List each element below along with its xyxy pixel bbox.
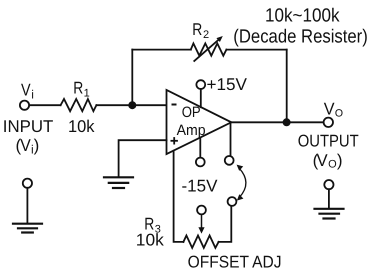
- wire input to R1: [29, 104, 60, 106]
- output terminal Vo: [324, 118, 333, 127]
- wire R2 to output node: [226, 49, 286, 51]
- arrow of variable resistor R2: [194, 36, 223, 62]
- wire junction up to feedback: [131, 50, 133, 106]
- svg-text:Amp: Amp: [177, 122, 206, 139]
- curved swap arrow: [239, 168, 246, 197]
- svg-text:): ): [34, 136, 40, 155]
- wire output pin down: [230, 122, 232, 156]
- svg-text:INPUT: INPUT: [3, 117, 54, 136]
- node B (output junction): [283, 118, 291, 126]
- wire output: [231, 121, 323, 123]
- svg-text:(Decade Resister): (Decade Resister): [233, 26, 367, 47]
- wire to ground: [328, 189, 330, 208]
- ground (non-inverting input): [104, 176, 133, 178]
- svg-text:O: O: [328, 158, 337, 170]
- svg-text:1: 1: [84, 88, 90, 100]
- svg-text:V: V: [20, 136, 31, 155]
- svg-text:10k: 10k: [136, 230, 164, 249]
- svg-text:10k~100k: 10k~100k: [265, 6, 340, 27]
- wire feedback down to output node: [286, 50, 288, 123]
- svg-text:R: R: [192, 20, 202, 39]
- wire R1 to inverting input: [96, 104, 166, 106]
- input terminal Vi: [20, 101, 29, 110]
- op-amp plus sign: [171, 137, 178, 144]
- wire op-amp to R3 left: [174, 151, 184, 242]
- svg-text:OUTPUT: OUTPUT: [298, 132, 359, 151]
- svg-text:OP: OP: [182, 104, 201, 121]
- wire feedback top left: [132, 49, 191, 51]
- op-amp U1 triangle: [167, 90, 232, 154]
- svg-text:-15V: -15V: [182, 176, 219, 195]
- svg-text:+15V: +15V: [207, 75, 248, 94]
- svg-text:2: 2: [203, 29, 209, 41]
- wire non-inverting input: [119, 140, 167, 176]
- terminal +15V: [196, 80, 205, 89]
- svg-text:): ): [337, 151, 343, 170]
- resistor R1: [61, 99, 97, 111]
- terminal at output bottom: [225, 156, 234, 165]
- ground (input): [13, 223, 42, 225]
- svg-text:R: R: [73, 78, 83, 97]
- arrowhead of R3 wiper: [198, 227, 204, 233]
- svg-text:OFFSET ADJ: OFFSET ADJ: [188, 252, 282, 271]
- terminal V- pin: [196, 158, 205, 167]
- svg-text:V: V: [317, 151, 329, 170]
- input ground terminal: [23, 179, 32, 188]
- node A (junction input/feedback): [128, 101, 136, 109]
- wiper arrow of R3: [201, 214, 203, 228]
- op-amp minus sign: [172, 104, 177, 106]
- ground (output): [315, 208, 344, 210]
- wire plug down to R3 right: [219, 206, 232, 242]
- svg-text:10k: 10k: [68, 117, 95, 136]
- wire to ground: [26, 188, 28, 223]
- resistor R2 (variable): [191, 43, 227, 55]
- svg-text:O: O: [335, 107, 343, 119]
- output ground terminal: [324, 180, 333, 189]
- svg-text:i: i: [31, 88, 34, 102]
- svg-text:V: V: [324, 100, 335, 119]
- svg-text:V: V: [21, 81, 31, 100]
- wire +15V supply: [200, 89, 202, 107]
- terminal -15V wiper plug: [197, 206, 206, 215]
- terminal offset right plug: [228, 197, 237, 206]
- wire V- supply pin down: [199, 138, 201, 158]
- resistor R3: [183, 236, 218, 248]
